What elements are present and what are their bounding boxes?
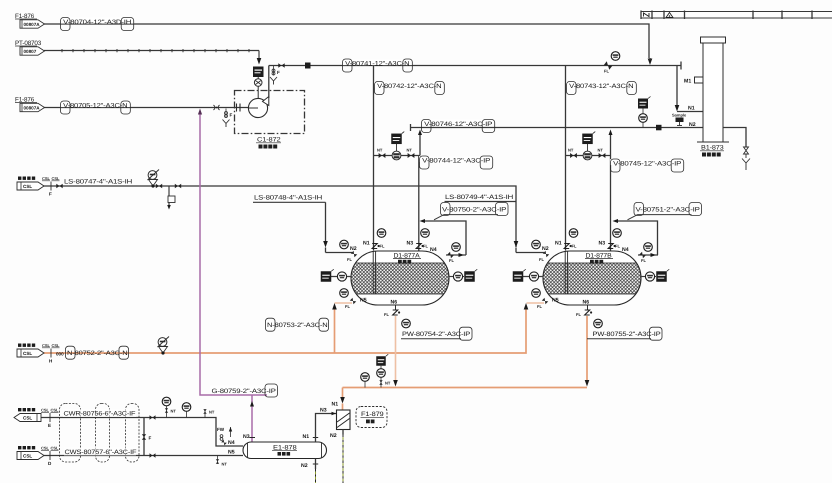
svg-text:CSL: CSL — [23, 454, 32, 459]
actuator/positioner B — [582, 132, 595, 145]
flow arrow N4 — [459, 253, 465, 257]
svg-text:FL: FL — [449, 258, 454, 263]
signal arrow to suction valve — [257, 58, 262, 65]
N5 valve — [542, 298, 549, 305]
drain arrow — [167, 205, 171, 210]
svg-text:N6: N6 — [583, 300, 590, 306]
actuator/positioner A — [391, 132, 404, 145]
line LS-80748-4"-A1S-IH to D1-877A N2 — [253, 195, 326, 243]
small valve — [221, 440, 227, 446]
arrow into filter N3 — [332, 412, 337, 416]
svg-text:00807A: 00807A — [24, 106, 41, 111]
svg-text:FL: FL — [380, 244, 385, 249]
side level instruments — [331, 276, 351, 278]
riser to D1-877A N5 (orange) — [334, 308, 336, 353]
FW utility at N4 — [217, 427, 232, 445]
arrow into N3 riser — [613, 219, 619, 223]
label G-80759 — [210, 384, 278, 397]
battery limit flag LS — [17, 177, 44, 191]
svg-text:CWS-80757-6"-A3C-IF: CWS-80757-6"-A3C-IF — [65, 449, 137, 456]
line label V-80745 — [610, 159, 684, 172]
line V-80743 riser to D1-877B N1 — [565, 66, 567, 251]
level DCS box — [321, 269, 334, 282]
svg-text:F: F — [149, 436, 152, 441]
filter F1-879 — [337, 410, 351, 430]
svg-text:CSL: CSL — [23, 351, 32, 356]
svg-text:00807: 00807 — [24, 49, 37, 54]
svg-text:E: E — [48, 423, 51, 428]
svg-text:NT: NT — [171, 409, 177, 414]
svg-text:N1: N1 — [688, 106, 695, 112]
off-page connector PT-08703 — [15, 40, 45, 55]
instrument at N3 — [613, 229, 622, 238]
off-page connector F1-876 — [15, 13, 45, 28]
svg-text:V-80741-12"-A3C-N: V-80741-12"-A3C-N — [345, 61, 410, 68]
instrument — [361, 373, 370, 382]
drain line (green dashed) from E1-878 N2 — [315, 469, 317, 483]
equipment name (CJK) — [702, 153, 706, 157]
svg-text:NT: NT — [598, 148, 604, 153]
FW arrow — [229, 427, 232, 432]
battery limit flag N — [17, 344, 44, 358]
valve — [175, 184, 181, 189]
butterfly valve — [604, 61, 613, 70]
equipment label C1-872 — [256, 137, 281, 144]
line V-80746-12"-A3C-IP to column N2 — [411, 127, 704, 129]
battery limit flag CWR — [14, 408, 41, 422]
line V-80742 riser to D1-877A N1 — [373, 66, 375, 251]
label PW-80754 — [401, 327, 472, 340]
spec break — [41, 408, 59, 429]
line G-80759-2"-A3C-IP (purple) — [200, 114, 267, 395]
level instrument — [337, 272, 346, 281]
line N-80752-2"-A3C-N (orange) — [44, 308, 526, 353]
root valve — [379, 380, 382, 384]
equipment label B1-873 — [700, 145, 724, 152]
E1-878 N2 stub — [315, 459, 317, 470]
closed drain valve + funnel — [742, 147, 750, 170]
N5 valve — [350, 298, 357, 305]
equipment label D1-877B — [584, 252, 614, 260]
svg-text:V-80751-2"-A3C-IP: V-80751-2"-A3C-IP — [636, 207, 700, 214]
line V-80741-12"-A3C-N — [269, 65, 681, 67]
side level instruments — [523, 276, 543, 278]
column B1-873 — [697, 37, 729, 142]
TI — [162, 397, 171, 406]
line V-80705-12"-A3C-N — [44, 107, 249, 109]
svg-text:CSL: CSL — [51, 408, 60, 413]
arrow into V-80741 header — [648, 59, 653, 66]
svg-text:FL: FL — [572, 244, 577, 249]
inline blind — [305, 63, 311, 69]
N5 connector — [335, 302, 353, 304]
svg-text:N3: N3 — [243, 434, 250, 440]
drain line (green dashed) from F1-879 N2 — [342, 430, 344, 435]
svg-text:G-80759-2"-A3C-IP: G-80759-2"-A3C-IP — [212, 388, 276, 395]
nozzle M1 — [695, 77, 704, 83]
root valve — [203, 409, 206, 413]
root valve — [216, 459, 219, 463]
DCS box — [376, 354, 388, 366]
svg-text:CSL: CSL — [51, 446, 60, 451]
label box F1-879 — [356, 407, 387, 428]
level DCS box — [656, 269, 669, 282]
svg-text:M1: M1 — [684, 79, 691, 85]
valve on discharge header — [278, 63, 284, 67]
nozzle valve N2 — [543, 251, 550, 258]
control valve station A — [374, 134, 421, 156]
svg-text:Sample: Sample — [672, 113, 687, 118]
reducer — [214, 105, 220, 110]
block valve — [408, 153, 415, 158]
block valve — [599, 153, 606, 158]
svg-text:LS-80749-4"-A1S-IH: LS-80749-4"-A1S-IH — [445, 194, 514, 201]
column bottoms drain — [723, 128, 746, 148]
vessel D1-877A — [351, 251, 449, 305]
drop to F1-879 N1 (orange) — [342, 388, 344, 399]
spec break — [41, 446, 59, 467]
arrow up to V-80746 — [418, 130, 422, 136]
svg-text:N5: N5 — [552, 298, 559, 304]
equipment name (CJK) — [278, 452, 282, 456]
root valve — [165, 408, 168, 412]
line PW-80754 from D1-877A N6 (orange) — [395, 316, 397, 381]
svg-text:NT: NT — [568, 148, 574, 153]
valve — [56, 184, 62, 189]
svg-text:NT: NT — [209, 410, 215, 415]
svg-text:N2: N2 — [330, 433, 337, 439]
level instrument — [645, 272, 654, 281]
nozzle vent glyph — [585, 310, 593, 315]
nozzle vent glyph — [416, 244, 424, 249]
svg-text:NT: NT — [407, 148, 413, 153]
equipment name (CJK) — [366, 420, 370, 424]
bypass between CWR/CWS — [143, 418, 145, 456]
spec break — [42, 343, 60, 364]
heat exchanger E1-878 — [243, 442, 327, 459]
svg-text:FL: FL — [423, 244, 428, 249]
steam trap — [158, 337, 170, 355]
line label V-80743 — [566, 82, 636, 95]
equipment name (CJK) — [398, 260, 402, 264]
arrow into D1-877A N5 — [332, 303, 337, 310]
equipment label E1-878 — [272, 445, 297, 452]
control valve station B — [566, 134, 611, 156]
instrument FO — [611, 52, 620, 61]
svg-text:N5: N5 — [228, 450, 235, 456]
label N-80753 (N5 risers) — [266, 318, 329, 331]
arrow down — [323, 241, 328, 248]
spec break — [42, 176, 60, 197]
valve — [150, 415, 156, 420]
vent/drain — [270, 66, 280, 85]
suction throttle valve w/ actuator — [253, 67, 264, 99]
equipment label D1-877A — [392, 252, 422, 260]
instrument at N3 — [421, 229, 430, 238]
arrow into N1 — [675, 105, 680, 112]
svg-text:NT: NT — [222, 462, 228, 467]
svg-text:N3: N3 — [407, 241, 414, 247]
line LS-80749-4"-A1S-IH to D1-877B N2 — [445, 194, 517, 202]
sample point — [672, 113, 687, 126]
arrow into F1-879 N1 — [340, 397, 345, 404]
flange pair — [236, 104, 238, 112]
svg-text:N4: N4 — [430, 247, 437, 253]
svg-text:V-80743-12"-A3C-N: V-80743-12"-A3C-N — [569, 83, 634, 90]
svg-text:FL: FL — [537, 304, 542, 309]
level instrument — [529, 272, 538, 281]
off-page connector F1-876 — [15, 96, 45, 111]
svg-text:V-80742-12"-A3C-N: V-80742-12"-A3C-N — [377, 83, 442, 90]
level instrument — [453, 272, 462, 281]
svg-text:LS-80748-4"-A1S-IH: LS-80748-4"-A1S-IH — [254, 195, 323, 202]
N4 valve — [639, 252, 646, 259]
svg-text:CSL: CSL — [41, 446, 50, 451]
line label V-80742 — [374, 82, 444, 95]
svg-text:CSL: CSL — [23, 416, 32, 421]
instrument at N5 — [340, 289, 349, 298]
svg-text:LS-80747-4"-A1S-IH: LS-80747-4"-A1S-IH — [64, 179, 133, 186]
pipe rack header bar — [641, 11, 832, 20]
valve — [156, 184, 162, 189]
DCS PIC — [638, 97, 651, 109]
line label V-80741 — [342, 59, 412, 72]
svg-text:CSL: CSL — [23, 184, 32, 189]
line V-80704-12"-A3D-IH — [44, 24, 649, 58]
compressor C1-872 — [248, 97, 268, 118]
N4 valve — [447, 252, 454, 259]
nozzle vent glyph — [608, 244, 616, 249]
line PW header (orange) — [343, 387, 588, 389]
compressor enclosure (dash-dot) — [235, 91, 305, 134]
arrow up to V-80746 — [609, 130, 613, 136]
block valve — [379, 153, 386, 158]
nozzle vent glyph — [564, 244, 572, 249]
steam trap — [148, 170, 160, 188]
instrument — [340, 240, 349, 249]
arrow into PW header — [393, 380, 398, 387]
svg-text:FL: FL — [576, 312, 581, 317]
instrument PT — [639, 114, 648, 123]
line label V-80746 — [421, 120, 495, 133]
svg-text:N1: N1 — [363, 241, 370, 247]
arrow into V-80705 — [198, 109, 202, 115]
svg-text:CSL: CSL — [52, 343, 61, 348]
PI — [182, 403, 191, 412]
svg-text:CSL: CSL — [41, 408, 50, 413]
equipment name (CJK) — [590, 260, 594, 264]
bypass valve — [142, 434, 146, 440]
svg-text:N4: N4 — [622, 247, 629, 253]
arrow PW-80755 into header — [585, 380, 590, 387]
arrow up to G-80759 — [250, 401, 254, 407]
svg-text:V-80705-12"-A3C-N: V-80705-12"-A3C-N — [63, 103, 128, 110]
line LS-80747-4"-A1S-IH — [41, 186, 516, 247]
arrow down — [514, 241, 519, 248]
svg-text:N6: N6 — [391, 300, 398, 306]
instrument at N5 — [532, 289, 541, 298]
svg-text:FL: FL — [539, 257, 544, 262]
svg-text:NT: NT — [377, 148, 383, 153]
svg-text:00807A: 00807A — [24, 22, 41, 27]
sample branch to column N1 — [676, 66, 678, 107]
nozzle flange ticks — [250, 437, 256, 439]
revision clouds — [60, 404, 81, 463]
instrument at N4 — [452, 243, 461, 252]
line CWR-80756-6"-A3C-IF — [41, 418, 243, 447]
svg-text:F: F — [49, 192, 52, 197]
svg-text:N1: N1 — [555, 241, 562, 247]
drip leg — [168, 186, 175, 205]
arrow into D1-877B N5 — [524, 303, 529, 310]
svg-text:N1: N1 — [332, 402, 339, 408]
E1-878 N1 to F1-879 N3 — [316, 414, 337, 443]
line V-80750-2"-A3C-IP — [423, 221, 466, 255]
level DCS box — [464, 269, 477, 282]
svg-text:FL: FL — [345, 304, 350, 309]
svg-text:F: F — [277, 70, 280, 75]
flow arrow N4 — [651, 253, 657, 257]
block valve — [570, 153, 577, 158]
svg-text:FL: FL — [604, 69, 609, 74]
svg-text:000: 000 — [56, 352, 64, 357]
label PW-80755 — [587, 327, 662, 340]
line V-80751-2"-A3C-IP — [616, 221, 658, 255]
level DCS box — [513, 269, 526, 282]
svg-text:N1: N1 — [303, 434, 310, 440]
svg-text:N3: N3 — [320, 408, 327, 414]
nozzle vent glyph — [393, 310, 401, 315]
control valve CV-A — [392, 144, 401, 160]
svg-text:PW-80755-2"-A3C-IP: PW-80755-2"-A3C-IP — [593, 331, 661, 338]
svg-text:FL: FL — [615, 244, 620, 249]
svg-text:CSL: CSL — [52, 176, 61, 181]
svg-text:N4: N4 — [228, 440, 235, 446]
svg-text:N2: N2 — [689, 122, 696, 128]
arrow into N3 riser — [420, 219, 426, 223]
discharge riser — [268, 66, 270, 99]
svg-text:N3: N3 — [599, 241, 606, 247]
svg-text:CSL: CSL — [42, 176, 51, 181]
svg-text:NT: NT — [385, 381, 391, 386]
svg-text:CSL: CSL — [42, 343, 51, 348]
line label V-80705 — [60, 101, 130, 114]
instrument at N4 — [644, 243, 653, 252]
svg-text:N2: N2 — [301, 463, 308, 469]
svg-text:FW: FW — [217, 427, 225, 432]
line CWS-80757-6"-A3C-IF — [41, 455, 243, 457]
svg-text:FL: FL — [384, 312, 389, 317]
line label V-80704 — [60, 18, 134, 31]
svg-text:V-80750-2"-A3C-IP: V-80750-2"-A3C-IP — [442, 207, 506, 214]
battery limit flag CWS — [17, 446, 44, 460]
svg-text:F: F — [230, 113, 233, 118]
line label V-80744 — [419, 156, 493, 169]
svg-text:CWR-80756-6"-A3C-IF: CWR-80756-6"-A3C-IF — [64, 411, 136, 418]
signal line from PT-08703 — [44, 50, 259, 52]
svg-text:N5: N5 — [360, 298, 367, 304]
nozzle valve N2 — [351, 251, 358, 258]
instrument at N1 — [569, 229, 578, 238]
equipment name (CJK) — [259, 145, 263, 149]
vessel D1-877B — [543, 251, 641, 305]
svg-text:FL: FL — [347, 257, 352, 262]
vent/drain — [223, 109, 233, 128]
instrument at N6 — [594, 319, 603, 328]
svg-text:FL: FL — [641, 258, 646, 263]
line to D1-877A N3 — [419, 155, 421, 157]
svg-text:V-80704-12"-A3D-IH: V-80704-12"-A3D-IH — [63, 19, 132, 26]
control valve CV-B — [583, 144, 592, 160]
N5 connector — [527, 302, 545, 304]
valve — [150, 453, 156, 458]
instrument — [532, 240, 541, 249]
instrument at N6 — [402, 319, 411, 328]
instrument at N1 — [377, 229, 386, 238]
instrument — [377, 369, 386, 378]
line to D1-877B N3 — [610, 156, 612, 251]
nozzle vent glyph — [372, 244, 380, 249]
